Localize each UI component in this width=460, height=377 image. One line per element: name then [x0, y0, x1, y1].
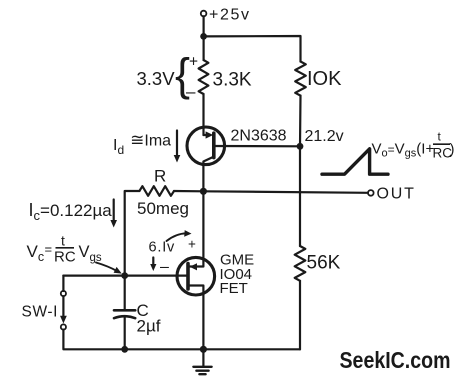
terminal +25v — [201, 11, 207, 17]
wire: cap bottom to rail — [124, 318, 126, 350]
svg-text:50meg: 50meg — [137, 199, 189, 218]
svg-text:R: R — [154, 167, 166, 186]
svg-text:–: – — [186, 82, 196, 101]
transistor Q1 emitter arrow segment — [204, 134, 208, 136]
svg-text:OUT: OUT — [377, 186, 416, 203]
svg-text:=: = — [45, 242, 53, 257]
label Vc pointer arrow — [96, 263, 118, 272]
svg-text:+: + — [189, 54, 198, 71]
switch SW-1 blade with arrowhead — [62, 296, 64, 317]
transistor Q1 collector diagonal — [203, 157, 213, 192]
wire: divider node down to 56K — [299, 146, 301, 246]
switch SW-1 bottom contact — [61, 324, 66, 329]
wire: collector node to OUT — [203, 191, 368, 193]
svg-text:+: + — [188, 237, 196, 252]
resistor 10K zigzag — [295, 62, 306, 96]
svg-text:SW-I: SW-I — [22, 304, 59, 321]
waveform icon sawtooth — [322, 149, 388, 174]
junction: supply node — [200, 33, 207, 40]
wire: supply node to 10K branch (top horizontal) — [204, 36, 301, 62]
label 6.1v pointer arrows — [167, 233, 187, 241]
svg-text:3.3V: 3.3V — [137, 68, 176, 89]
label Id current arrow — [176, 131, 178, 159]
resistor R 50meg zigzag — [139, 186, 174, 196]
svg-text:Vo=Vgs(I+: Vo=Vgs(I+ — [372, 141, 435, 160]
svg-text:3.3K: 3.3K — [213, 70, 252, 91]
svg-text:FET: FET — [220, 280, 248, 297]
wire: gate horizontal (SW branch to FET gate) — [63, 275, 188, 277]
capacitor C bottom plate (curved) — [114, 316, 135, 318]
svg-text:Ic=0.122µa: Ic=0.122µa — [29, 200, 113, 223]
junction: source/ground on rail — [200, 346, 207, 353]
ground stub — [202, 349, 204, 366]
junction: 21.2v node — [297, 143, 304, 150]
junction: gate node — [121, 272, 128, 279]
resistor 56K zigzag — [295, 246, 306, 281]
svg-text:21.2v: 21.2v — [305, 128, 344, 145]
svg-text:+25v: +25v — [209, 7, 251, 24]
label Ic current arrow — [113, 200, 115, 223]
wire: 10K bottom to 21.2v node — [299, 96, 302, 147]
svg-text:): ) — [450, 141, 455, 158]
wire: SW-1 bottom to ground rail — [63, 330, 300, 350]
svg-text:56K: 56K — [307, 253, 341, 274]
wire: +25v terminal down to supply junction — [203, 16, 205, 60]
ground bars — [193, 366, 211, 368]
svg-text:SeekIC.com: SeekIC.com — [340, 347, 451, 373]
wire: gate node down to cap top plate — [124, 276, 126, 310]
wire: 3.3K bottom to Q1 emitter — [202, 94, 204, 135]
svg-text:t: t — [61, 233, 65, 249]
junction: Q1 collector node — [200, 188, 207, 195]
transistor Q1 2N3638 circle — [187, 127, 225, 165]
svg-text:RC: RC — [54, 249, 76, 266]
wire: collector node left to resistor R — [174, 190, 203, 193]
terminal OUT — [368, 190, 374, 196]
transistor Q2 source stub — [188, 286, 203, 350]
switch SW-1 wire from gate corner down — [62, 276, 64, 291]
wire: R left end corner down to gate node — [125, 191, 140, 276]
wire: 56K bottom to ground rail — [299, 281, 301, 350]
svg-text:2N3638: 2N3638 — [231, 128, 287, 145]
transistor Q1 base bar — [212, 133, 216, 157]
transistor Q2 GME 1004 FET circle — [177, 257, 215, 295]
transistor Q2 gate arrowhead — [190, 263, 197, 270]
svg-text:–: – — [160, 259, 169, 276]
svg-text:6.Iv: 6.Iv — [149, 240, 176, 256]
junction: cap on rail — [121, 346, 128, 353]
wire: Q1 base to divider node — [214, 145, 300, 148]
svg-text:2µf: 2µf — [137, 317, 161, 336]
resistor 3.3K zigzag — [199, 60, 209, 94]
svg-text:IOK: IOK — [307, 68, 342, 90]
transistor Q2 drain stub — [188, 191, 203, 266]
capacitor C top plate — [114, 309, 135, 312]
transistor Q2 channel bar — [186, 264, 190, 290]
switch SW-1 top contact — [61, 291, 66, 296]
